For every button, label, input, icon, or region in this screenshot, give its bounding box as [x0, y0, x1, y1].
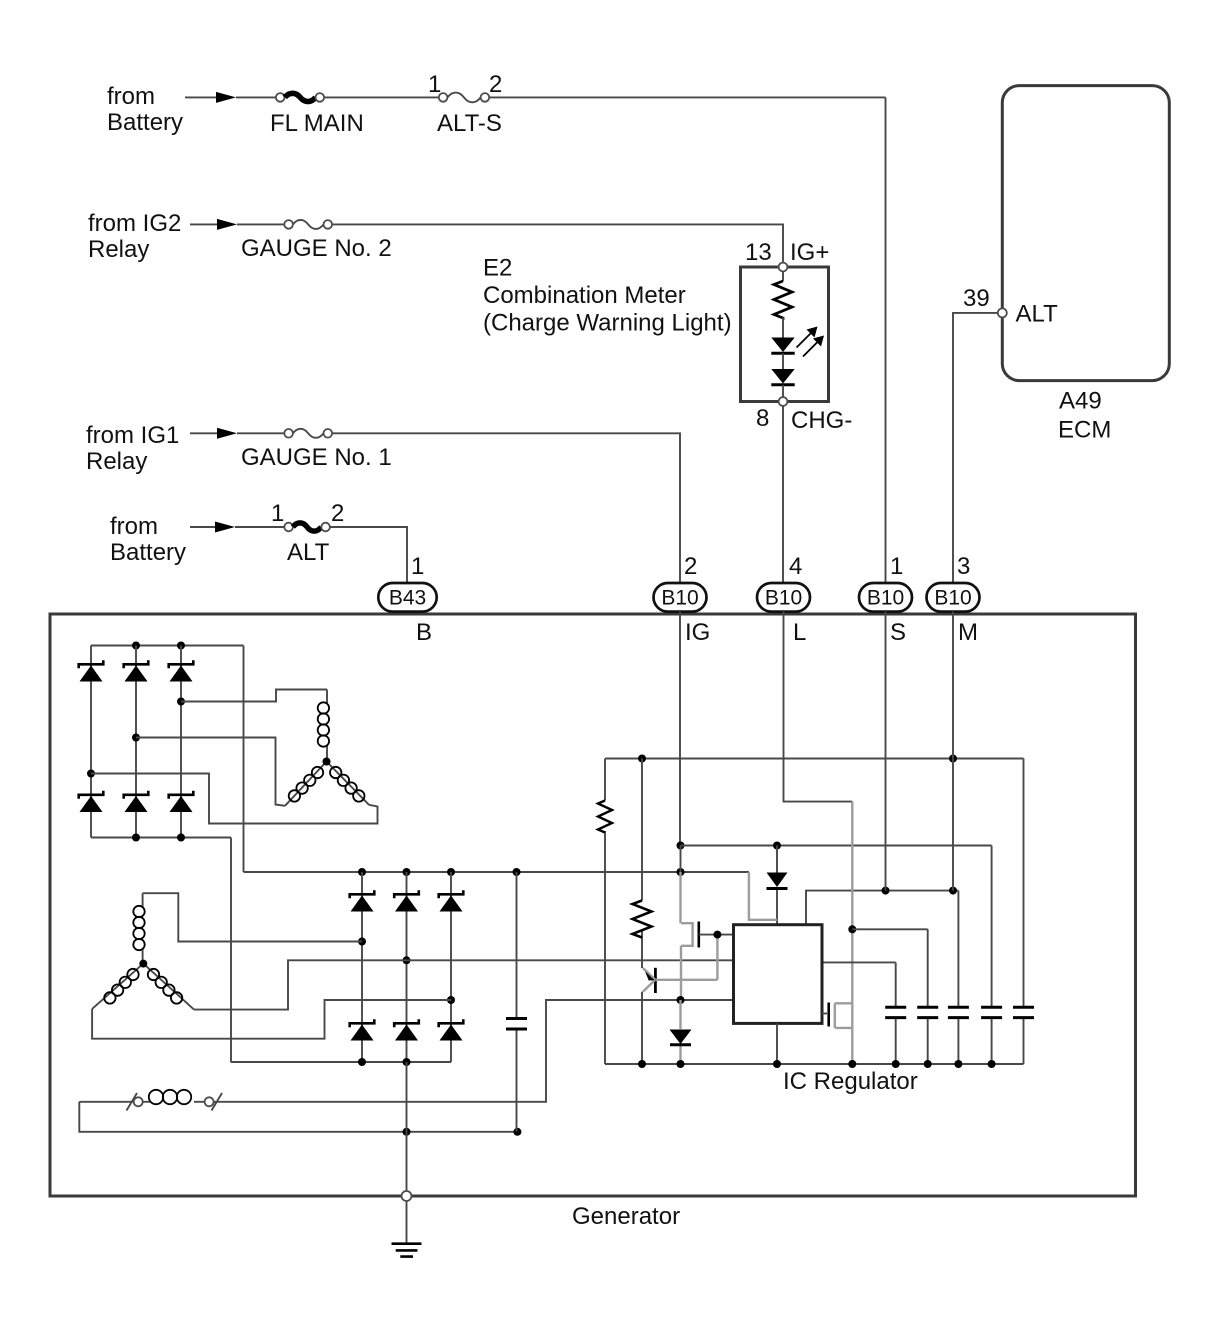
stator1 right coil: [327, 762, 370, 805]
diode rectifier1 top row col1: [79, 660, 104, 681]
wire: field line left end: [79, 1101, 133, 1103]
ground: [392, 1244, 422, 1257]
wire: rectifier1 bottom bus: [91, 837, 231, 839]
junction: phase tap col3: [177, 698, 185, 706]
IC regulator internal block: [734, 925, 823, 1024]
svg-text:A49: A49: [1059, 388, 1102, 415]
brush slash left: [127, 1093, 138, 1111]
diode rectifier2 bottom row col3: [439, 1019, 464, 1040]
wire: ground line from B column to case: [406, 1062, 408, 1191]
arrow head: [217, 428, 237, 439]
wire: CHG- drop to L column: [782, 406, 784, 584]
transistor M2 (MOSFET, lamp driver): [822, 1003, 852, 1028]
wire: phase tap col3 to stator1 top coil: [181, 690, 327, 702]
wire: rectifier1 column 2: [135, 646, 137, 838]
diode rectifier2 bottom row col2: [394, 1019, 419, 1040]
svg-text:IG: IG: [685, 619, 710, 646]
resistor R1: [598, 759, 612, 1065]
wire: L riser (lamp driver rail): [851, 802, 853, 1064]
connector B10 (M pin 3): [927, 583, 980, 612]
LED emission arrows: [797, 329, 822, 357]
wire: C1pin feed line from IC right: [822, 961, 896, 963]
wire: M column inside generator: [952, 612, 954, 891]
svg-text:IG+: IG+: [790, 239, 829, 266]
diode D3 (flyback, on IG leg): [670, 1000, 692, 1064]
junction: phase tap rect2 col1: [358, 938, 366, 946]
wire: phase tap col1 to stator1 right coil: [91, 774, 378, 824]
wire: phase line from stator2 right coil to IC regulator: [194, 960, 734, 1009]
wire: rectifier2 column 2 (B line): [406, 872, 408, 1062]
wire: field return lower line: [79, 1102, 517, 1132]
fuse GAUGE No.1 element: [293, 429, 324, 438]
junction: phase tap col2: [132, 734, 140, 742]
svg-text:E2: E2: [483, 255, 512, 282]
junction: phase tap col1: [87, 770, 95, 778]
resistor R2: [633, 759, 652, 1065]
wire: phase line from stator2 left coil to col3: [92, 1000, 451, 1039]
diode rectifier1 top row col3: [169, 660, 194, 681]
wire: B+ bus (rect2 top bus): [244, 871, 749, 873]
capacitor C2: [917, 929, 938, 1064]
wire: phase tap col1 to stator2 top coil: [143, 893, 362, 941]
junction: field return to ground line: [403, 1128, 411, 1136]
pin 8 terminal circle: [779, 397, 788, 406]
fuse ALT-S element: [447, 93, 480, 103]
connector B10 (IG pin 2): [654, 583, 707, 612]
fuse GAUGE No.2 terminal 1: [284, 220, 293, 229]
rotor field coil: [143, 1090, 205, 1104]
wire: positive link rect1 top bus down to rect2 top bus: [243, 646, 245, 873]
transistor Q1 (PNP): [643, 968, 717, 993]
svg-text:B10: B10: [934, 587, 971, 610]
combination meter box E2: [741, 267, 829, 402]
diode rectifier1 bottom row col3: [169, 791, 194, 812]
wire: rectifier2 bottom bus (negative rail): [231, 1061, 451, 1063]
stator2 left coil: [92, 964, 143, 1009]
connector B10 (L pin 4): [757, 583, 810, 612]
wire: inside meter from pin13 to resistor: [782, 271, 784, 281]
capacitor C5: [981, 846, 1002, 1065]
capacitor C4: [948, 891, 969, 1064]
svg-text:ALT: ALT: [287, 539, 330, 566]
transistor M1 (MOSFET, field driver stage): [681, 922, 734, 948]
pin 13 terminal circle: [779, 263, 788, 272]
wire: M1 source down to field node: [680, 946, 682, 1000]
wire: LED to diode: [782, 353, 784, 369]
svg-text:1: 1: [890, 553, 903, 580]
wire: sense rail (top) R1/R2/M/C5: [605, 758, 1024, 760]
node: stator1 neutral junction: [323, 758, 331, 766]
wire: S column drop to generator: [885, 97, 887, 583]
wire: IG column inside generator: [679, 612, 681, 846]
diode rectifier1 bottom row col2: [124, 791, 149, 812]
svg-text:3: 3: [957, 553, 970, 580]
junction: gate/base node: [713, 931, 721, 939]
junction: capacitor C1 to field return: [513, 1128, 521, 1136]
diode rectifier2 top row col2: [394, 890, 419, 911]
wire: fuse to IG column: [332, 433, 680, 583]
wire: arrow to FL MAIN: [236, 96, 276, 98]
svg-text:(Charge Warning Light): (Charge Warning Light): [483, 310, 732, 337]
wire: diode to pin 8: [782, 385, 784, 397]
fuse ALT-S terminal 2: [481, 93, 490, 102]
wire: arrow to fuse: [237, 432, 284, 434]
svg-text:IC Regulator: IC Regulator: [783, 1068, 918, 1095]
wire: IG bus to M1 drain: [679, 872, 681, 923]
wire: resistor to LED: [782, 318, 784, 338]
junction: M on pin rail: [949, 887, 957, 895]
wire: rectifier1 column 1: [90, 646, 92, 838]
wire: IG2 feed: [190, 223, 233, 225]
wire: IG1 feed: [190, 432, 233, 434]
svg-text:B: B: [416, 619, 432, 646]
wire: arrow to fuse: [237, 223, 284, 225]
stator1 left coil: [285, 762, 327, 806]
fusible link ALT terminal 1: [284, 523, 293, 532]
ECM box A49: [1002, 86, 1169, 381]
stator2 top coil: [133, 893, 144, 963]
generator box: [50, 614, 1136, 1196]
junction: field drive node on IG leg: [677, 996, 685, 1004]
capacitor C6: [1013, 759, 1034, 1065]
wire: field line to regulator F drive: [214, 1000, 734, 1102]
wire: battery feed: [190, 526, 231, 528]
fusible link FL MAIN body: [285, 93, 316, 101]
junction: R2 top on sense rail: [638, 755, 646, 763]
wire: negative link rect1 bottom bus down to rect2 bottom bus: [230, 838, 232, 1063]
diode rectifier2 top row col1: [350, 890, 375, 911]
junction dots on rectifier2 bottom bus: [358, 1058, 366, 1066]
wire: regulator ground bus: [605, 1063, 1024, 1065]
junction: phase tap rect2 col3: [447, 996, 455, 1004]
fuse GAUGE No.2 terminal 2: [324, 220, 333, 229]
wire: rectifier2 column 3: [450, 872, 452, 1062]
svg-text:ECM: ECM: [1058, 417, 1111, 444]
wire: arrow to fusible link ALT: [235, 526, 284, 528]
fusible link FL MAIN terminal 2: [316, 93, 325, 102]
svg-text:L: L: [793, 619, 806, 646]
svg-text:GAUGE No. 1: GAUGE No. 1: [241, 444, 392, 471]
svg-text:ALT-S: ALT-S: [437, 110, 502, 137]
wire: L column inside generator: [784, 612, 853, 802]
diode rectifier1 top row col2: [124, 660, 149, 681]
svg-text:B43: B43: [389, 587, 426, 610]
svg-text:from IG1: from IG1: [86, 422, 179, 449]
wire: S column inside generator: [885, 612, 887, 891]
svg-text:2: 2: [331, 500, 344, 527]
svg-text:B10: B10: [765, 587, 802, 610]
ground terminal circle on generator case: [402, 1191, 412, 1201]
capacitor C3: [885, 962, 906, 1064]
wire: Q1 base riser to gate node: [716, 935, 718, 980]
svg-text:2: 2: [684, 553, 697, 580]
wire: IC bottom pin to ground bus: [776, 1023, 778, 1064]
junction: L rail to C2 line: [848, 925, 856, 933]
fuse GAUGE No.2 element: [293, 220, 324, 229]
svg-text:4: 4: [789, 553, 802, 580]
brush (slip ring) terminal left: [134, 1097, 143, 1106]
svg-text:GAUGE No. 2: GAUGE No. 2: [241, 235, 392, 262]
junction: IG at zener rail: [677, 842, 685, 850]
junction dots on rectifier1 bottom bus: [132, 834, 140, 842]
svg-text:B10: B10: [661, 587, 698, 610]
wire: ALT-S to S column: [489, 96, 885, 98]
svg-text:Battery: Battery: [110, 539, 186, 566]
svg-text:M: M: [958, 619, 978, 646]
junction dots on rectifier1 top bus: [132, 642, 140, 650]
brush slash right: [212, 1093, 223, 1111]
wire: IG to B+ bus: [680, 846, 682, 873]
wire: B+ bus jog to zener cathode: [749, 872, 777, 920]
junction dots on B+ bus: [358, 868, 366, 876]
svg-text:Generator: Generator: [572, 1203, 680, 1230]
svg-text:FL MAIN: FL MAIN: [270, 110, 364, 137]
wire: rectifier1 column 3: [180, 646, 182, 838]
svg-text:from: from: [107, 83, 155, 110]
fuse ALT-S terminal 1: [439, 93, 448, 102]
diode (meter, lower): [771, 369, 794, 384]
resistor (meter, charge light): [774, 281, 792, 318]
wire: C2 feed line: [852, 928, 927, 930]
fusible link ALT body: [293, 523, 321, 531]
LED charge warning light (diode): [771, 338, 794, 353]
svg-text:13: 13: [745, 239, 772, 266]
fuse GAUGE No.1 terminal 2: [324, 429, 333, 438]
pin 39 terminal circle: [998, 308, 1007, 317]
svg-text:S: S: [890, 619, 906, 646]
fuse GAUGE No.1 terminal 1: [284, 429, 293, 438]
fusible link FL MAIN terminal 1: [276, 93, 285, 102]
svg-text:1: 1: [271, 500, 284, 527]
wire: fuse to combination meter IG+: [332, 224, 783, 262]
svg-text:Battery: Battery: [107, 109, 183, 136]
arrow head: [217, 219, 237, 230]
svg-text:2: 2: [489, 71, 502, 98]
svg-text:Relay: Relay: [88, 236, 149, 263]
wire: phase tap col2 to stator1 left coil: [136, 738, 285, 806]
wire: S/M pin rail from IC top: [806, 891, 958, 925]
node: stator2 neutral junction: [139, 960, 147, 968]
svg-text:1: 1: [411, 553, 424, 580]
junction dots on regulator ground bus: [638, 1060, 646, 1068]
wire: battery feed arrow line: [185, 96, 232, 98]
wire: ECM pin 39 to M column: [953, 313, 998, 584]
stator2 right coil: [143, 964, 194, 1010]
svg-text:from: from: [110, 513, 158, 540]
svg-text:CHG-: CHG-: [791, 407, 852, 434]
junction: zener top: [773, 842, 781, 850]
wire: zener rail: [681, 845, 992, 847]
connector B10 (S pin 1): [859, 583, 912, 612]
wire: ALT to B column: [330, 527, 407, 584]
brush (slip ring) terminal right: [205, 1097, 214, 1106]
diode rectifier2 bottom row col1: [350, 1019, 375, 1040]
wire: FL MAIN to ALT-S: [324, 96, 439, 98]
svg-text:from IG2: from IG2: [88, 210, 181, 237]
diode rectifier1 bottom row col1: [79, 791, 104, 812]
svg-text:B10: B10: [867, 587, 904, 610]
diode rectifier2 top row col3: [439, 890, 464, 911]
svg-text:39: 39: [963, 285, 990, 312]
wire: ground stem: [406, 1201, 408, 1244]
arrow head: [215, 522, 235, 533]
stator1 top coil: [318, 690, 329, 762]
arrow head: [216, 92, 236, 103]
wire: rectifier2 column 1: [361, 872, 363, 1062]
junction: M line on sense rail: [949, 755, 957, 763]
svg-text:Combination Meter: Combination Meter: [483, 282, 686, 309]
capacitor C1 (suppression): [506, 872, 527, 1132]
connector B43: [378, 583, 436, 612]
wire: rectifier1 top bus: [91, 645, 244, 647]
svg-text:ALT: ALT: [1016, 301, 1059, 328]
junction: phase tap rect2 col2: [403, 956, 411, 964]
zener diode D2: [767, 846, 788, 925]
svg-text:Relay: Relay: [86, 448, 147, 475]
svg-text:8: 8: [756, 405, 769, 432]
junction: S on pin rail: [882, 887, 890, 895]
fusible link ALT terminal 2: [321, 523, 330, 532]
